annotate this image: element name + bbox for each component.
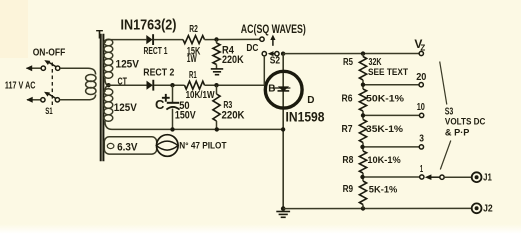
switch S3 wiper bbox=[425, 174, 444, 180]
svg-text:10K-1%: 10K-1% bbox=[367, 155, 401, 166]
resistor R4 bbox=[213, 40, 220, 69]
transformer secondary lower winding bbox=[104, 85, 113, 129]
svg-text:R6: R6 bbox=[342, 94, 353, 105]
label 6.3V bbox=[117, 142, 138, 154]
node R2/R4 junction bbox=[214, 37, 218, 41]
label R3 bbox=[223, 100, 232, 111]
label 10K-1% bbox=[367, 155, 401, 166]
label S1 bbox=[45, 106, 53, 117]
svg-text:D: D bbox=[307, 95, 314, 106]
label R7 bbox=[342, 124, 353, 135]
wire S1 to primary bottom bbox=[60, 95, 96, 100]
transformer T core bbox=[101, 34, 104, 162]
label 220K R4 bbox=[222, 54, 244, 66]
label R6 bbox=[342, 94, 353, 105]
svg-text:J1: J1 bbox=[483, 172, 492, 183]
wire tap 20 bbox=[363, 84, 419, 86]
jack J1 bbox=[472, 172, 482, 182]
label S2 bbox=[270, 55, 281, 66]
label 117 V AC bbox=[5, 80, 36, 92]
pilot lamp I1 bbox=[156, 135, 178, 157]
ground below R4 bbox=[211, 69, 223, 75]
terminal VZ contact bbox=[419, 51, 423, 55]
svg-text:5K-1%: 5K-1% bbox=[369, 184, 398, 195]
svg-text:SEE TEXT: SEE TEXT bbox=[368, 67, 408, 77]
svg-text:220K: 220K bbox=[222, 109, 245, 121]
label IN1763(2) bbox=[121, 17, 177, 33]
svg-text:J2: J2 bbox=[483, 204, 493, 215]
node R1/R3 junction bbox=[214, 83, 218, 87]
svg-text:10K/1W: 10K/1W bbox=[186, 89, 215, 101]
label 35K-1% bbox=[366, 124, 404, 135]
wire tap 1 bbox=[363, 176, 420, 178]
svg-text:3: 3 bbox=[419, 133, 424, 144]
wire RECT2 to R1 bbox=[154, 84, 185, 86]
label CT bbox=[118, 76, 128, 87]
svg-text:R5: R5 bbox=[343, 57, 353, 68]
terminal contact 10 bbox=[419, 113, 423, 117]
wire winding bottom rail bbox=[112, 128, 283, 130]
label AC(SQ WAVES) bbox=[241, 24, 306, 36]
svg-text:50K-1%: 50K-1% bbox=[366, 94, 405, 105]
label 5K-1% bbox=[369, 184, 398, 195]
label VOLTS DC bbox=[445, 117, 486, 127]
label R2 bbox=[189, 24, 198, 35]
terminal contact 20 bbox=[419, 83, 423, 87]
svg-text:1: 1 bbox=[420, 164, 423, 175]
terminal AC circle bbox=[260, 37, 264, 41]
svg-text:S1: S1 bbox=[45, 106, 53, 117]
label VZ bbox=[414, 37, 425, 52]
label No 47 PILOT bbox=[179, 141, 226, 152]
label 3 bbox=[419, 133, 424, 144]
svg-text:N° 47 PILOT: N° 47 PILOT bbox=[179, 141, 226, 152]
node S2 output junction bbox=[281, 52, 285, 56]
wire secondary top to RECT1 bbox=[109, 39, 147, 41]
svg-text:B: B bbox=[268, 84, 275, 95]
label 125V lower bbox=[114, 102, 138, 114]
node rail/zener junction bbox=[281, 127, 285, 131]
label 125V upper bbox=[116, 59, 140, 71]
resistor R3 bbox=[213, 85, 220, 129]
node CT junction bbox=[106, 83, 110, 87]
svg-text:AC(SQ WAVES): AC(SQ WAVES) bbox=[241, 24, 306, 36]
label R9 bbox=[343, 184, 354, 195]
svg-text:35K-1%: 35K-1% bbox=[366, 124, 404, 135]
svg-text:R7: R7 bbox=[342, 124, 353, 135]
svg-text:R1: R1 bbox=[189, 70, 197, 81]
svg-text:125V: 125V bbox=[114, 102, 138, 114]
resistor R7 bbox=[359, 115, 366, 146]
wire riser to DC terminal bbox=[263, 56, 265, 85]
svg-text:1W: 1W bbox=[187, 53, 197, 65]
jack J2 bbox=[472, 203, 482, 213]
wire S2 down through zener to ground rail bbox=[282, 54, 284, 209]
resistor R8 bbox=[359, 147, 366, 177]
svg-text:220K: 220K bbox=[222, 54, 244, 66]
label R1 bbox=[189, 70, 197, 81]
node ground junction bbox=[281, 206, 286, 211]
svg-text:R8: R8 bbox=[342, 155, 353, 166]
label C bbox=[155, 97, 165, 112]
terminal contact 3 bbox=[419, 145, 423, 149]
label S3 bbox=[445, 107, 454, 118]
capacitor C plus sign bbox=[162, 94, 170, 102]
label D bbox=[307, 95, 314, 106]
label T bbox=[96, 29, 103, 41]
switch S1 lower pole bbox=[41, 92, 60, 102]
svg-text:ON-OFF: ON-OFF bbox=[33, 48, 66, 59]
svg-text:VOLTS DC: VOLTS DC bbox=[445, 117, 486, 127]
svg-text:S2: S2 bbox=[270, 55, 281, 66]
label 15K 1W bbox=[187, 45, 201, 65]
svg-text:117 V AC: 117 V AC bbox=[5, 80, 36, 92]
wire RECT1 to R2 bbox=[154, 39, 183, 41]
svg-text:IN1598: IN1598 bbox=[286, 110, 325, 125]
resistor R6 bbox=[359, 85, 366, 116]
label RECT 2 bbox=[143, 68, 174, 79]
wire R2 to AC terminal bbox=[205, 38, 260, 40]
label IN1598 bbox=[286, 110, 325, 125]
transformer secondary upper winding bbox=[104, 39, 113, 85]
node tap 1 junction bbox=[360, 175, 364, 179]
node tap 10 junction bbox=[361, 113, 365, 117]
wire S1 to primary top bbox=[60, 68, 96, 74]
label 10 bbox=[417, 102, 426, 113]
wire S2 junction to R5 rail bbox=[283, 53, 419, 55]
resistor R2 bbox=[183, 36, 205, 44]
wire 117VAC to S1 lower bbox=[26, 97, 41, 103]
label R8 bbox=[342, 155, 353, 166]
label ON-OFF bbox=[33, 48, 66, 59]
svg-text:125V: 125V bbox=[116, 59, 140, 71]
node tap 3 junction bbox=[360, 145, 364, 149]
label R4 bbox=[222, 44, 235, 56]
wire tap 10 bbox=[363, 114, 419, 116]
switch S3 arc lower bbox=[440, 141, 451, 170]
resistor R9 bbox=[359, 177, 366, 209]
transformer T primary winding bbox=[86, 75, 96, 95]
label B bbox=[268, 84, 275, 95]
svg-text:T: T bbox=[96, 29, 103, 41]
label DC bbox=[246, 43, 258, 54]
svg-text:C: C bbox=[155, 97, 165, 112]
node R5 top junction bbox=[361, 51, 365, 55]
wire tap 3 bbox=[363, 146, 419, 148]
diode RECT1 bbox=[146, 34, 153, 45]
ground main bbox=[276, 212, 290, 218]
svg-text:IN1763(2): IN1763(2) bbox=[121, 17, 177, 33]
label 20 bbox=[416, 72, 427, 83]
label 50 bbox=[179, 100, 189, 112]
terminal contact 1 bbox=[420, 175, 424, 179]
svg-text:6.3V: 6.3V bbox=[117, 142, 138, 154]
node R9 bottom junction bbox=[361, 206, 365, 210]
svg-text:R2: R2 bbox=[189, 24, 198, 35]
svg-text:10: 10 bbox=[417, 102, 426, 113]
svg-text:32K: 32K bbox=[369, 56, 382, 68]
label 1 bbox=[420, 164, 423, 175]
node C bottom junction bbox=[170, 127, 174, 131]
diode RECT2 bbox=[147, 80, 154, 91]
wire R1 to DC riser bbox=[205, 84, 265, 86]
switch S2 up arrow bbox=[270, 35, 275, 46]
svg-text:20: 20 bbox=[416, 72, 427, 83]
terminal DC circle bbox=[262, 52, 266, 56]
capacitor C bbox=[166, 85, 179, 129]
svg-text:R9: R9 bbox=[343, 184, 354, 195]
svg-text:RECT 1: RECT 1 bbox=[144, 46, 168, 57]
label 32K SEE TEXT bbox=[368, 56, 408, 77]
svg-text:150V: 150V bbox=[175, 109, 196, 121]
wire 117VAC to S1 upper bbox=[26, 65, 41, 71]
switch S1 mechanical link (dashed) bbox=[51, 63, 53, 106]
label 50K-1% bbox=[366, 94, 405, 105]
zener diode D IN1598 bbox=[265, 71, 302, 108]
label and P-P bbox=[445, 127, 470, 137]
switch S1 upper pole bbox=[41, 60, 60, 70]
label 220K R3 bbox=[222, 109, 245, 121]
label J1 bbox=[483, 172, 492, 183]
node tap 20 junction bbox=[361, 83, 365, 87]
label R5 bbox=[343, 57, 353, 68]
label RECT 1 bbox=[144, 46, 168, 57]
wire bottom rail to J2 bbox=[283, 207, 472, 209]
label 150V bbox=[175, 109, 196, 121]
svg-text:DC: DC bbox=[246, 43, 258, 54]
svg-text:RECT 2: RECT 2 bbox=[143, 68, 174, 79]
wire CT to RECT2 bbox=[109, 84, 147, 86]
resistor R5 bbox=[359, 54, 366, 84]
winding 6.3V oval bbox=[104, 137, 156, 154]
resistor R1 bbox=[185, 81, 205, 89]
node R3 bottom junction bbox=[215, 127, 219, 131]
node C top junction bbox=[170, 83, 174, 87]
wire S3 wiper to J1 bbox=[444, 176, 472, 178]
switch S2 wiper bbox=[268, 51, 279, 56]
label 10K/1W bbox=[186, 89, 215, 101]
svg-text:& P·P: & P·P bbox=[445, 127, 470, 137]
label J2 bbox=[483, 204, 493, 215]
switch S3 arc upper bbox=[440, 62, 447, 105]
